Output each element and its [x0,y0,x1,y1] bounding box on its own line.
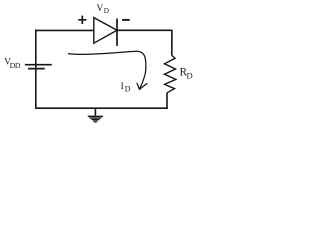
ground: stem [94,108,96,116]
ground: bar 2 [90,117,102,119]
current arrow ID: curved shaft [68,51,146,89]
plus sign (anode polarity) [78,16,86,24]
svg-text:D: D [125,85,131,94]
svg-text:I: I [121,81,124,91]
resistor RD: zigzag [165,55,176,93]
ground: bar 4 [93,120,98,122]
svg-text:D: D [104,7,109,15]
ground: bar 3 [91,119,99,121]
ground: bar 5 [94,121,96,123]
minus sign (cathode polarity) [122,19,130,21]
wire: bottom horizontal [35,107,168,109]
wire: left vertical from top corner to bottom corner (passes through battery) [35,30,37,109]
wire: top, from diode cathode to right corner [117,29,172,31]
wire: right vertical from top corner to resistor [171,30,173,56]
diode D1: cathode bar [116,19,118,47]
svg-text:D: D [187,71,193,81]
battery VDD: long positive plate [25,64,52,66]
wire: right vertical from resistor to bottom corner [166,93,168,108]
battery VDD: short negative plate [28,68,45,70]
diode D1: triangle (anode) [94,18,117,44]
svg-text:V: V [97,4,104,14]
wire: top, from left corner to diode anode [36,29,94,31]
ground: bar 1 [88,115,103,117]
svg-text:DD: DD [10,61,21,70]
current arrow ID: arrowhead [137,83,147,90]
